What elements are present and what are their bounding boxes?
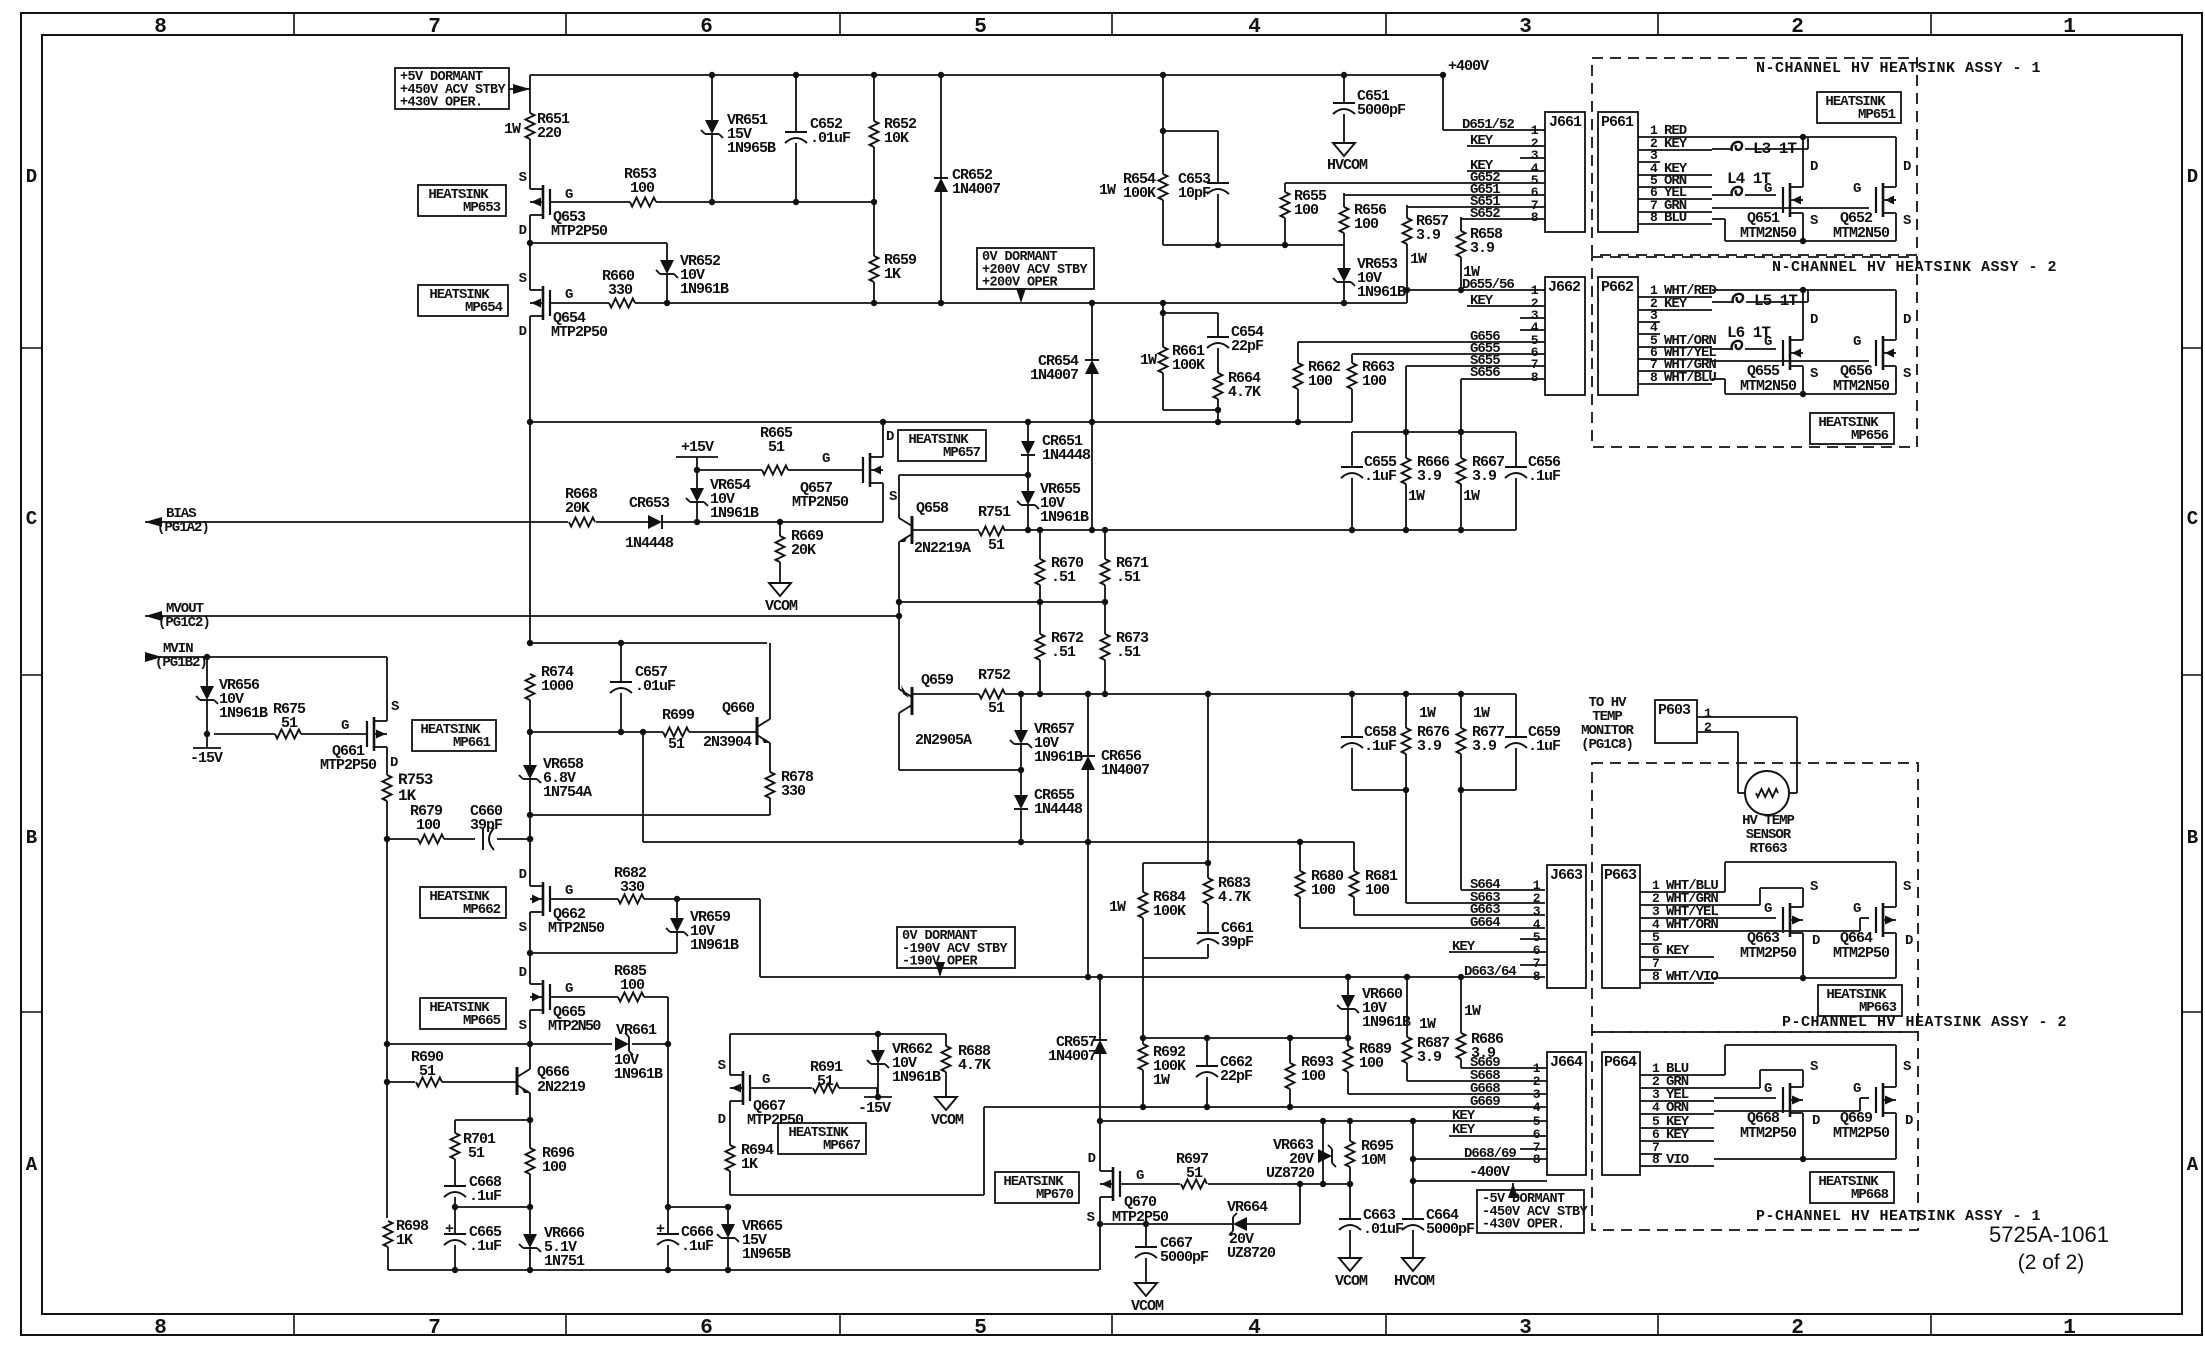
node Q653 drain xyxy=(527,240,533,246)
svg-text:MTM2P50: MTM2P50 xyxy=(1740,945,1797,962)
wire main vertical to Q662 xyxy=(529,815,531,842)
resistor R665 51 xyxy=(697,469,762,471)
svg-text:P-CHANNEL HV HEATSINK ASSY - 1: P-CHANNEL HV HEATSINK ASSY - 1 xyxy=(1756,1208,2041,1225)
svg-text:100: 100 xyxy=(1301,1068,1326,1085)
node rail M junction xyxy=(527,419,533,425)
resistor R653 xyxy=(630,198,656,207)
wire P664 pin4 ORN to Q669 gate xyxy=(1714,1110,1860,1112)
svg-text:3.9: 3.9 xyxy=(1417,1049,1442,1066)
svg-text:VCOM: VCOM xyxy=(765,598,798,615)
transistor Q657 MTP2N50 xyxy=(869,453,872,487)
svg-text:+: + xyxy=(445,1221,454,1238)
svg-text:(PG1C8): (PG1C8) xyxy=(1581,737,1633,753)
wire R681 to G663 row xyxy=(1354,914,1545,916)
diode CR653 1N4448 xyxy=(648,515,662,529)
resistor R667 3.9 1W xyxy=(1460,432,1462,458)
svg-text:A: A xyxy=(2187,1154,2199,1176)
svg-text:MP662: MP662 xyxy=(463,902,501,918)
resistor R679 100 xyxy=(418,835,444,844)
wire R685 corner down to VR661 rail xyxy=(644,996,668,998)
wire CR656 column extension to D663/64 rail xyxy=(1087,842,1089,977)
note box 0V DORMANT +200V ACV STBY +200V OPER xyxy=(977,248,1094,289)
svg-text:+15V: +15V xyxy=(681,439,714,456)
svg-text:3: 3 xyxy=(1519,16,1531,39)
zener VR661 10V 1N961B xyxy=(615,1037,629,1051)
svg-text:MTP2N50: MTP2N50 xyxy=(792,494,849,511)
svg-text:G: G xyxy=(565,287,573,303)
svg-text:D668/69: D668/69 xyxy=(1464,1146,1516,1162)
wire drains of Q655/Q656 xyxy=(1802,290,1804,329)
wire S668 row from R687 xyxy=(1407,1080,1547,1082)
svg-text:MP667: MP667 xyxy=(823,1138,861,1154)
transistor Q658 2N2219A xyxy=(911,516,914,544)
svg-text:6: 6 xyxy=(700,16,712,39)
svg-text:G: G xyxy=(1764,901,1772,917)
svg-text:(PG1A2): (PG1A2) xyxy=(157,520,209,536)
wire P661 pin6 YEL through L4 to Q651 gate xyxy=(1712,194,1733,196)
capacitor C659 .1uF xyxy=(1515,694,1517,737)
node D655/56 row junctions xyxy=(1404,287,1410,293)
wire Q663/Q664 drains to pin8 row xyxy=(1802,944,1804,978)
wire mid rail 1038 xyxy=(1143,1037,1348,1039)
wire +400V bus xyxy=(530,74,1443,76)
capacitor C654 22pF xyxy=(1163,312,1218,314)
svg-text:B: B xyxy=(2187,827,2198,849)
border row ticks right xyxy=(2182,347,2202,349)
wire R680 to G664 row xyxy=(1300,927,1545,929)
wire top rail of C655 group xyxy=(1352,431,1516,433)
wire D668/69 row xyxy=(1412,1121,1414,1181)
svg-text:C: C xyxy=(26,508,37,530)
wire P663 pin1 WHT/BLU to source bus assy3 xyxy=(1714,891,1725,893)
svg-text:1N961B: 1N961B xyxy=(690,937,739,954)
transistor Q668 MTM2P50 xyxy=(1789,1083,1792,1117)
svg-text:.01uF: .01uF xyxy=(1363,1221,1404,1238)
capacitor C651 5000pF xyxy=(1343,75,1345,103)
svg-text:1: 1 xyxy=(2063,16,2075,39)
svg-text:1W: 1W xyxy=(1109,899,1126,916)
wire source bus assy2 xyxy=(1712,378,1725,380)
resistor R660 xyxy=(609,299,635,308)
svg-text:20K: 20K xyxy=(791,542,816,559)
ground VCOM under R688 xyxy=(935,1097,957,1110)
note box -5V DORMANT -450V ACV STBY -430V OPER. xyxy=(1477,1190,1584,1233)
svg-text:D: D xyxy=(1812,1113,1820,1129)
svg-text:1N4448: 1N4448 xyxy=(1034,801,1083,818)
connector P664 xyxy=(1602,1052,1640,1175)
svg-text:D: D xyxy=(1088,1151,1096,1167)
svg-text:Q660: Q660 xyxy=(722,700,755,717)
wire Q668/Q669 drains to pin8 VIO row xyxy=(1802,1124,1804,1159)
svg-text:1W: 1W xyxy=(1473,705,1490,722)
zener VR654 10V 1N961B xyxy=(696,470,698,488)
arrow from note box to +200V rail xyxy=(1020,289,1022,301)
svg-text:D655/56: D655/56 xyxy=(1462,277,1514,293)
svg-text:2N2905A: 2N2905A xyxy=(915,732,972,749)
svg-text:2N3904: 2N3904 xyxy=(703,734,752,751)
svg-text:-430V OPER.: -430V OPER. xyxy=(1482,1218,1565,1233)
svg-text:G: G xyxy=(762,1072,770,1088)
wire G669 rail xyxy=(984,1106,1547,1108)
svg-text:51: 51 xyxy=(668,736,685,753)
svg-text:D: D xyxy=(519,223,527,239)
wire rail R694 to corner under G669 rail xyxy=(730,1194,984,1196)
svg-text:D: D xyxy=(26,166,37,188)
resistor R701 51 xyxy=(454,1120,456,1133)
heatsink box MP653 xyxy=(418,185,506,216)
arrow into +400V node xyxy=(509,88,530,90)
svg-text:(PG1C2): (PG1C2) xyxy=(158,615,210,631)
wire C668/R696 bottom rail xyxy=(455,1206,530,1208)
wire rail A (Q658 base rail) xyxy=(912,529,979,531)
svg-text:D: D xyxy=(1903,312,1911,328)
svg-text:S: S xyxy=(1903,213,1911,229)
svg-text:1W: 1W xyxy=(1153,1072,1170,1089)
svg-text:A: A xyxy=(26,1154,38,1176)
transistor Q661 MTP2P50 xyxy=(373,717,376,751)
svg-text:.51: .51 xyxy=(1116,644,1141,661)
svg-text:8: 8 xyxy=(154,1317,166,1340)
wire R677/C659 bottom rail xyxy=(1461,789,1516,791)
svg-text:S: S xyxy=(1903,1059,1911,1075)
svg-text:G669: G669 xyxy=(1470,1094,1500,1110)
resistor R693 100 xyxy=(1289,1038,1291,1063)
svg-text:3.9: 3.9 xyxy=(1470,240,1495,257)
svg-text:1N961B: 1N961B xyxy=(1034,749,1083,766)
wire S669 row from R686 xyxy=(1461,1067,1547,1069)
svg-text:MTP2P50: MTP2P50 xyxy=(320,757,377,774)
svg-text:S: S xyxy=(1810,366,1818,382)
svg-text:1N4007: 1N4007 xyxy=(952,181,1000,198)
svg-text:VR661: VR661 xyxy=(616,1022,657,1039)
resistor R678 330 xyxy=(769,753,771,772)
svg-text:MTM2N50: MTM2N50 xyxy=(1833,225,1890,242)
svg-text:G664: G664 xyxy=(1470,915,1500,931)
svg-text:51: 51 xyxy=(768,439,785,456)
svg-text:MTP2N50: MTP2N50 xyxy=(548,1018,601,1035)
svg-text:MTP2P50: MTP2P50 xyxy=(551,223,608,240)
capacitor C656 .1uF xyxy=(1515,432,1517,467)
svg-text:1N961B: 1N961B xyxy=(892,1069,941,1086)
svg-text:J663: J663 xyxy=(1550,867,1583,884)
svg-text:100: 100 xyxy=(1311,882,1336,899)
svg-text:10pF: 10pF xyxy=(1178,185,1211,202)
svg-text:VCOM: VCOM xyxy=(931,1112,964,1129)
wire C666 column xyxy=(667,1044,669,1207)
svg-text:D651/52: D651/52 xyxy=(1462,117,1514,133)
wire -190V run to D663/64 rail xyxy=(759,899,761,977)
resistor R752 51 xyxy=(979,690,1005,699)
resistor R687 3.9 1W xyxy=(1406,977,1408,1037)
resistor R691 51 xyxy=(813,1084,839,1093)
connector P603 xyxy=(1655,700,1697,743)
zener VR655 10V 1N961B xyxy=(1027,475,1029,491)
svg-text:1W: 1W xyxy=(504,121,521,138)
svg-text:S: S xyxy=(519,920,527,936)
resistor R669 20K xyxy=(777,519,783,525)
svg-text:UZ8720: UZ8720 xyxy=(1266,1165,1315,1182)
svg-text:330: 330 xyxy=(620,879,645,896)
svg-text:3.9: 3.9 xyxy=(1417,738,1442,755)
svg-text:P661: P661 xyxy=(1601,114,1634,131)
capacitor C657 .01uF xyxy=(620,643,622,682)
wire R654/C653 bottom rail xyxy=(1163,244,1344,246)
wire R654/C653 top rail xyxy=(1162,75,1164,131)
svg-text:1: 1 xyxy=(2063,1317,2075,1340)
resistor R686 3.9 1W xyxy=(1460,977,1462,1033)
heatsink box MP654 xyxy=(418,285,508,316)
wire Q670 gate lead xyxy=(1120,1183,1180,1185)
svg-text:P664: P664 xyxy=(1604,1054,1637,1071)
svg-text:.1uF: .1uF xyxy=(1364,738,1397,755)
wire VR661 rail xyxy=(387,1043,612,1045)
svg-text:L5 1T: L5 1T xyxy=(1754,292,1798,310)
wire R699 to Q660 base xyxy=(689,731,757,733)
svg-text:R751: R751 xyxy=(978,504,1011,521)
svg-text:S: S xyxy=(519,271,527,287)
svg-text:S: S xyxy=(519,1018,527,1034)
wire -400V line xyxy=(1413,1180,1547,1182)
svg-text:MP654: MP654 xyxy=(465,300,503,316)
wire J661 pin rows / net labels xyxy=(1443,129,1545,131)
svg-text:7: 7 xyxy=(428,1317,440,1340)
svg-text:2: 2 xyxy=(1791,1317,1803,1340)
wire KEY rail (J664 pin5) xyxy=(1097,1118,1103,1124)
svg-text:P603: P603 xyxy=(1658,702,1691,719)
svg-text:1000: 1000 xyxy=(541,678,574,695)
svg-text:.1uF: .1uF xyxy=(469,1238,502,1255)
wire +15V to gate node xyxy=(696,457,698,470)
wire main left vertical (R651/Q653/Q654 column) xyxy=(529,75,531,113)
svg-text:1W: 1W xyxy=(1463,488,1480,505)
diode CR655 1N4448 xyxy=(1020,770,1022,795)
node +200V rail junctions xyxy=(664,300,670,306)
svg-text:G: G xyxy=(1764,334,1772,350)
svg-text:MTM2P50: MTM2P50 xyxy=(1833,1125,1890,1142)
wire R684 column to mid rail xyxy=(1142,958,1144,1038)
diode CR654 1N4007 xyxy=(1091,303,1093,360)
transistor Q651 MTM2N50 xyxy=(1789,183,1792,217)
svg-text:+430V OPER.: +430V OPER. xyxy=(400,96,483,111)
svg-text:1N961B: 1N961B xyxy=(1357,284,1406,301)
resistor R685 100 xyxy=(618,993,644,1002)
wire R689 to G668 row xyxy=(1348,1093,1547,1095)
svg-text:39pF: 39pF xyxy=(470,817,503,834)
resistor R753 1K xyxy=(386,758,388,775)
note box 0V DORMANT -190V ACV STBY -190V OPER xyxy=(897,927,1015,968)
svg-text:100: 100 xyxy=(620,977,645,994)
wire P663 pin4 WHT/ORN to Q664 gate xyxy=(1714,930,1860,932)
svg-text:.1uF: .1uF xyxy=(1528,468,1561,485)
resistor R683 4.7K xyxy=(1207,863,1209,878)
svg-text:MP651: MP651 xyxy=(1858,107,1896,123)
svg-text:1N961B: 1N961B xyxy=(614,1066,663,1083)
transistor Q667 MTP2P50 xyxy=(729,1034,731,1064)
thermistor HV TEMP SENSOR RT663 xyxy=(1745,771,1789,815)
svg-text:1N4007: 1N4007 xyxy=(1048,1048,1096,1065)
connector P661 xyxy=(1598,112,1638,232)
svg-text:100: 100 xyxy=(1308,373,1333,390)
svg-text:MTM2P50: MTM2P50 xyxy=(1833,945,1890,962)
dashed box N-CHANNEL HV HEATSINK ASSY - 1 xyxy=(1592,58,1917,255)
svg-text:D: D xyxy=(519,867,527,883)
wire R661/R664 bottom xyxy=(1163,409,1218,411)
svg-text:S: S xyxy=(519,170,527,186)
svg-text:51: 51 xyxy=(1186,1165,1203,1182)
svg-text:MP653: MP653 xyxy=(463,200,501,216)
heatsink box MP656 xyxy=(1810,413,1894,444)
resistor R672 .51 xyxy=(1039,602,1041,634)
inductor L3 1T xyxy=(1732,142,1742,151)
svg-text:S: S xyxy=(1903,366,1911,382)
wire R677 column down to S664 row xyxy=(1460,790,1462,890)
svg-text:-15V: -15V xyxy=(190,750,223,767)
resistor R662 100 xyxy=(1297,342,1299,363)
zener VR657 10V 1N961B xyxy=(1020,694,1022,730)
svg-text:UZ8720: UZ8720 xyxy=(1227,1245,1276,1262)
wire Q658 emitter to Q659 collector xyxy=(898,552,900,679)
svg-text:R752: R752 xyxy=(978,667,1011,684)
resistor R654 100K 1W xyxy=(1159,174,1168,200)
svg-text:Q659: Q659 xyxy=(921,672,954,689)
svg-text:100: 100 xyxy=(630,180,655,197)
zener VR666 5.1V 1N751 xyxy=(529,1207,531,1234)
svg-text:D663/64: D663/64 xyxy=(1464,964,1516,980)
resistor R658 3.9 1W xyxy=(1460,217,1462,231)
wire node to VR652 branch xyxy=(530,242,667,244)
svg-text:1W: 1W xyxy=(1410,251,1427,268)
wire drains of Q651/Q652 xyxy=(1802,137,1804,176)
wire C666/VR665 top link xyxy=(668,1206,728,1208)
svg-text:VCOM: VCOM xyxy=(1131,1298,1164,1315)
resistor R668 20K xyxy=(569,518,595,527)
wire Q662 source rail xyxy=(529,923,531,953)
svg-text:39pF: 39pF xyxy=(1221,934,1254,951)
svg-text:8: 8 xyxy=(1650,210,1658,225)
capacitor C667 5000pF xyxy=(1145,1224,1147,1247)
svg-text:S: S xyxy=(1903,879,1911,895)
heatsink box MP661 xyxy=(412,720,496,751)
connector P662 xyxy=(1598,277,1638,395)
svg-text:Q658: Q658 xyxy=(916,500,949,517)
svg-text:1N961B: 1N961B xyxy=(219,705,268,722)
wire Q658 collector up to CR651 branch xyxy=(898,475,900,508)
zener VR653 10V 1N961B xyxy=(1343,245,1345,268)
svg-text:1K: 1K xyxy=(884,266,901,283)
svg-text:MP668: MP668 xyxy=(1851,1187,1889,1203)
svg-text:S: S xyxy=(1810,879,1818,895)
wire VR652 to +200V gate rail xyxy=(666,274,668,303)
svg-text:100K: 100K xyxy=(1153,903,1186,920)
svg-text:51: 51 xyxy=(988,700,1005,717)
inductor L5 1T xyxy=(1733,294,1743,303)
svg-text:J661: J661 xyxy=(1549,114,1582,131)
svg-text:.1uF: .1uF xyxy=(469,1188,502,1205)
wire S655/S656 drops to top rail 432 xyxy=(1405,366,1407,432)
svg-text:8: 8 xyxy=(154,16,166,39)
wire P603 pin1 to sensor xyxy=(1697,716,1797,718)
node main vertical at loop top xyxy=(527,640,533,646)
arrow from note box to -190V rail xyxy=(939,968,941,975)
svg-text:4: 4 xyxy=(1652,1100,1660,1115)
wire source bus assy1 xyxy=(1712,218,1725,220)
arrow BIAS xyxy=(145,517,162,527)
svg-text:D: D xyxy=(1812,933,1820,949)
wire R684 loop bottom xyxy=(1143,957,1208,959)
wire MVOUT rail xyxy=(145,615,899,617)
wire P662 pin7 WHT/GRN to Q656 gate xyxy=(1712,360,1869,362)
ground VCOM under C667 xyxy=(1135,1283,1157,1296)
svg-text:G: G xyxy=(1853,1081,1861,1097)
svg-text:D: D xyxy=(718,1112,726,1128)
svg-text:5: 5 xyxy=(974,16,986,39)
svg-text:D: D xyxy=(1903,159,1911,175)
wire R690 to Q666 base xyxy=(442,1081,517,1083)
wire R682 to -190V corner xyxy=(644,898,760,900)
wire R697 to gate rail corners xyxy=(1208,1183,1350,1185)
resistor R675 51 xyxy=(214,733,275,735)
svg-text:51: 51 xyxy=(281,715,298,732)
wire Q657 drain to rail M xyxy=(882,422,884,446)
wire R651 to Q653 source xyxy=(529,139,531,178)
wire Q659 emitter branch to VR657 node xyxy=(898,723,900,770)
wire Q657 source to BIAS rail xyxy=(882,494,884,522)
wire Q654 source from node xyxy=(529,243,531,279)
wire Q665 gate lead xyxy=(550,996,618,998)
svg-text:S: S xyxy=(1087,1210,1095,1226)
ground VCOM under C663 xyxy=(1339,1258,1361,1271)
svg-text:8: 8 xyxy=(1531,370,1539,385)
svg-text:G: G xyxy=(565,187,573,203)
svg-text:1W: 1W xyxy=(1419,1016,1436,1033)
wire MVIN to Q661 source xyxy=(386,657,388,710)
svg-text:330: 330 xyxy=(608,282,633,299)
svg-text:-400V: -400V xyxy=(1469,1164,1510,1181)
svg-text:D: D xyxy=(2187,166,2198,188)
heatsink box MP662 xyxy=(420,887,506,918)
svg-text:HVCOM: HVCOM xyxy=(1327,157,1368,174)
resistor R666 3.9 1W xyxy=(1405,432,1407,458)
power bar -15V under VR656 xyxy=(206,734,208,748)
svg-text:51: 51 xyxy=(419,1063,436,1080)
svg-text:G: G xyxy=(565,981,573,997)
resistor R696 100 xyxy=(529,1120,531,1148)
note box +5V DORMANT +450V ACV STBY +430V OPER. xyxy=(395,68,509,109)
svg-text:.1uF: .1uF xyxy=(681,1238,714,1255)
svg-text:1W: 1W xyxy=(1464,1003,1481,1020)
svg-text:D: D xyxy=(1905,1113,1913,1129)
svg-text:G: G xyxy=(1764,1081,1772,1097)
wire CR654 column extension to rail A xyxy=(1091,422,1093,530)
svg-text:2N2219A: 2N2219A xyxy=(914,540,971,557)
wire rail C (Q659 base rail) xyxy=(912,693,979,695)
svg-text:2N2219: 2N2219 xyxy=(537,1079,586,1096)
svg-text:D: D xyxy=(886,429,894,445)
svg-text:VR664: VR664 xyxy=(1227,1199,1268,1216)
svg-text:100K: 100K xyxy=(1172,357,1205,374)
node gate rail xyxy=(709,199,715,205)
svg-text:J664: J664 xyxy=(1550,1054,1583,1071)
svg-text:1: 1 xyxy=(1704,706,1712,721)
resistor R695 10M xyxy=(1349,1121,1351,1141)
svg-text:51: 51 xyxy=(468,1145,485,1162)
node VR654/+15V junctions xyxy=(694,519,700,525)
svg-text:1N965B: 1N965B xyxy=(742,1246,791,1263)
wire J662 pin rows / net labels xyxy=(1407,289,1545,291)
svg-text:MTM2N50: MTM2N50 xyxy=(1740,225,1797,242)
svg-text:1N965B: 1N965B xyxy=(727,140,776,157)
zener VR651 15V 1N965B xyxy=(711,75,713,120)
